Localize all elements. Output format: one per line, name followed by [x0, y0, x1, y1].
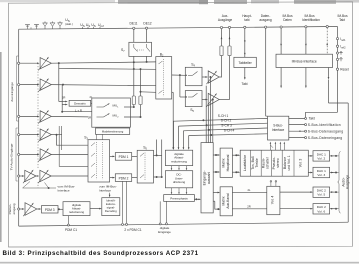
wire S-Bus Identifikation out: [289, 124, 305, 126]
svg-text:auswahl: auswahl: [207, 172, 211, 184]
wires 2x PDM C1: [122, 181, 124, 223]
pin S-Bus-Dateneingang: [305, 137, 307, 139]
pin IM-Bus Daten: [280, 26, 282, 28]
svg-text:2R: 2R: [88, 116, 91, 120]
wire Eingangsauswahl to Matrix Aux in1: [213, 192, 219, 194]
pin input 2: [18, 84, 20, 86]
wires digitale Eingaenge: [159, 201, 161, 223]
svg-text:Lautstärke: Lautstärke: [243, 155, 247, 171]
svg-text:S-Bus-Dateneingang: S-Bus-Dateneingang: [308, 136, 343, 140]
wire PDM3 to reducer2: [58, 208, 63, 210]
svg-text:Eingänge: Eingänge: [158, 230, 171, 234]
pin input 6: [18, 175, 20, 177]
wire input 1: [20, 62, 39, 64]
pin Iref2: [336, 45, 338, 47]
wire row3: [51, 115, 88, 118]
switch box S7: [129, 42, 152, 56]
wire S3 to PDM2: [110, 177, 114, 179]
svg-text:Reset: Reset: [340, 68, 348, 72]
svg-text:TV-Audio-Eingänge: TV-Audio-Eingänge: [10, 143, 14, 170]
svg-text:S-CH 3: S-CH 3: [221, 123, 232, 127]
resistor R3: [132, 96, 135, 105]
wire Dematrix out: [91, 102, 92, 104]
scan artifact: top grey band: [0, 0, 115, 2]
svg-text:Vol. 2: Vol. 2: [317, 156, 325, 160]
svg-text:Aux-Eingänge: Aux-Eingänge: [10, 82, 14, 102]
svg-text:Hauptkanal: Hauptkanal: [226, 154, 230, 171]
svg-text:Takt: Takt: [339, 18, 345, 22]
svg-text:US: US: [80, 23, 85, 28]
wire IM-Bus control 3 (clock, dashed continues): [328, 68, 330, 78]
op-amp A9: [25, 203, 37, 216]
svg-text:Interface: Interface: [272, 128, 285, 132]
op-amp A3: [40, 111, 51, 122]
wire S6 out 1: [154, 154, 162, 156]
pin platten input: [18, 208, 20, 210]
svg-text:2L: 2L: [248, 188, 251, 192]
svg-text:Ausgänge: Ausgänge: [346, 175, 350, 190]
dashed gain control line: [37, 63, 39, 169]
op-amp A6b: [40, 170, 51, 181]
block PDM 1: [115, 153, 131, 161]
ground pin: [27, 25, 29, 29]
svg-text:Modebestimmung: Modebestimmung: [102, 130, 124, 134]
svg-text:S-Bus-Identifikation: S-Bus-Identifikation: [308, 123, 341, 127]
svg-text:Taktteiler: Taktteiler: [238, 61, 252, 65]
wire S7 out left: [133, 56, 135, 96]
op-amp A5: [40, 149, 51, 160]
wire Vol4 out to DAC2a: [280, 191, 312, 193]
wire row2 branch down: [61, 85, 63, 112]
pin stub: [30, 27, 32, 29]
wire Eingangsauswahl to Matrix Hauptkanal in1: [213, 154, 219, 156]
svg-text:Vol. 3: Vol. 3: [299, 159, 303, 168]
wires MU down to S3: [96, 134, 98, 139]
block Modebestimmung: [96, 128, 130, 134]
wire amp to PDM3: [37, 208, 40, 210]
pin input 5: [18, 153, 20, 155]
wire reducer2 to decoder: [90, 208, 101, 210]
wire amp A7 to aux out 1: [219, 76, 221, 78]
op-amp A1: [40, 58, 51, 69]
bus S-CH 4: [188, 136, 190, 149]
block digitale Abtastreduzierung 2: [63, 202, 90, 216]
svg-text:schalter: schalter: [266, 156, 270, 169]
svg-text:Vol. 4: Vol. 4: [271, 196, 275, 205]
block DAC 1 Vol. 2: [313, 151, 330, 161]
wire DAC 2 Vol. 6 output: [330, 208, 336, 210]
svg-text:PDM 2: PDM 2: [119, 176, 129, 180]
pin Hauptakt: [244, 26, 246, 28]
wire to second stage: [37, 175, 40, 177]
wire Preemphasis to Eingangsauswahl: [194, 198, 199, 200]
svg-text:eingang: eingang: [12, 203, 16, 214]
switch box S6: [137, 150, 153, 183]
wire input 2: [20, 84, 39, 86]
wire IM-Bus Daten to interface: [280, 28, 282, 54]
wire input 5: [20, 154, 39, 156]
block Vol 4: [267, 186, 280, 214]
supply pin Uref: [99, 27, 101, 29]
wire S7 out right: [146, 56, 148, 62]
block B2: [156, 57, 172, 99]
pin ground 2: [336, 58, 338, 60]
wire aux drop to S3: [59, 126, 88, 166]
decoupling pin C3: [59, 26, 61, 29]
pin DE11: [133, 27, 135, 29]
wire DE12 to switch S7: [146, 29, 148, 42]
wire Taktteiler output Takt: [244, 68, 246, 80]
op-amp A4: [40, 129, 51, 140]
svg-text:(stab.): (stab.): [65, 22, 73, 26]
svg-text:2R: 2R: [247, 204, 250, 208]
wire row5 to S3: [51, 154, 88, 156]
bracket Aux inputs: [16, 56, 18, 121]
switch MU2: [97, 116, 104, 118]
svg-text:S-CH 4: S-CH 4: [224, 128, 235, 132]
block Identifikationssignal-Decoding: [102, 198, 120, 216]
block Taktteiler: [234, 57, 256, 67]
IC boundary bottom edge: [19, 222, 349, 226]
svg-text:S-CH 1: S-CH 1: [218, 114, 229, 118]
svg-text:Treble: Treble: [255, 158, 259, 168]
switch box S4: [185, 67, 202, 85]
scan artifact: bottom smear: [0, 262, 359, 264]
audio output bracket: [338, 151, 341, 213]
switch MU1: [97, 106, 104, 108]
block main processing row: [240, 150, 308, 176]
wire branch row1 to B2 second input: [59, 63, 156, 70]
wire DAC 2 Vol. 5 output: [330, 191, 336, 193]
wire Matrix Hauptkanal out2: [232, 171, 239, 173]
svg-text:takt: takt: [244, 18, 249, 22]
wire Matrix Aux out 2R: [232, 208, 266, 210]
block Eingangsauswahl: [201, 143, 213, 213]
arrows to Preemphasis: [171, 188, 173, 193]
wire row1 to B2: [51, 62, 155, 63]
supply pin Us: [82, 27, 84, 29]
svg-text:reduzierung: reduzierung: [171, 159, 187, 163]
op-amp A6a: [25, 170, 36, 181]
op-amp A7: [208, 71, 219, 83]
block DC-Unterdrueckung: [165, 171, 192, 188]
supply pin Us: [87, 27, 89, 29]
wire DAC 1 Vol. 2 output: [330, 155, 336, 157]
wire Eingangsauswahl to Matrix Aux in2: [215, 201, 219, 209]
IC boundary left edge: [18, 29, 20, 226]
wire row4 drop to S3: [57, 135, 89, 146]
pin IM-Bus Identifikation: [305, 26, 307, 28]
svg-text:drückung: drückung: [173, 180, 186, 184]
wire amp A8 to aux out 2: [219, 99, 229, 101]
svg-text:Bild 3: Prinzipschaltbild des: Bild 3: Prinzipschaltbild des Soundproze…: [3, 250, 199, 257]
block DAC 2 Vol. 5: [313, 187, 330, 197]
wire S3 to PDM1: [110, 155, 114, 157]
switch box S3: [88, 140, 110, 182]
wire Matrix Aux out 2L: [232, 191, 266, 193]
wire: right edge jog to S-Bus Takt pin: [306, 112, 338, 118]
pin input 1: [18, 62, 20, 64]
block IM-Bus-Interface U1: [276, 54, 333, 67]
wire IM-Bus Identifikation to interface: [305, 28, 307, 54]
wire S6 output rail 1: [156, 140, 158, 156]
wire IM-Bus control 2: [305, 68, 307, 87]
arrow zum IM-Bus-Interface into decoder: [109, 193, 111, 197]
op-amp A2: [40, 79, 51, 90]
bus S-CH 1: [173, 121, 175, 149]
wire S6 out 2: [154, 176, 162, 178]
block digitale Abtastreduzierung: [165, 150, 192, 165]
block DAC 2 Vol. 6: [313, 204, 330, 214]
pin S-Bus-Identifikation: [305, 124, 307, 126]
pin Reset: [336, 68, 338, 70]
wire row2 to B2: [51, 85, 155, 86]
svg-text:Ausgänge: Ausgänge: [218, 18, 233, 22]
svg-text:Uref: Uref: [98, 23, 104, 28]
block S-Bus-Interface U2: [268, 116, 289, 140]
svg-text:Interface: Interface: [99, 189, 111, 193]
pin Aux output 1: [220, 26, 222, 28]
wire Datenausgang down to S-Bus interface: [266, 28, 268, 116]
wire Aux output 1 with arrow and resistor R1: [221, 29, 223, 46]
svg-text:Interface: Interface: [58, 189, 70, 193]
pin IM-Bus Takt: [326, 25, 328, 27]
svg-text:Vol. 3: Vol. 3: [317, 173, 325, 177]
switch box S5: [185, 91, 202, 107]
svg-text:S-Bus-Datenausgang: S-Bus-Datenausgang: [308, 130, 343, 134]
svg-text:PDM 3: PDM 3: [45, 208, 55, 212]
pin S-Bus Takt: [305, 117, 307, 119]
svg-text:Aux-Kanal: Aux-Kanal: [226, 193, 230, 208]
gain control bus wire: [23, 187, 56, 189]
svg-text:DE11: DE11: [129, 22, 137, 26]
wire B2 lower output down to sample-rate reducer: [172, 91, 174, 93]
ground pin: [36, 25, 38, 29]
svg-text:S-CH 2: S-CH 2: [221, 119, 232, 123]
svg-text:US: US: [86, 23, 91, 28]
wire IM-Bus Takt to interface (dashed): [326, 28, 328, 55]
svg-text:Iref2: Iref2: [340, 45, 346, 50]
block Preemphasis: [164, 195, 195, 202]
svg-text:reduzierung: reduzierung: [69, 210, 85, 214]
wire DE11 to switch S7: [133, 29, 135, 42]
block Dematrix: [69, 100, 91, 106]
wire row6 to S3: [51, 175, 88, 177]
pin input 3: [18, 115, 20, 117]
pin Iref1: [336, 38, 338, 40]
arrows to DC block: [171, 166, 173, 170]
block PDM 3: [42, 206, 59, 213]
wire B2 branch down to S5: [179, 75, 181, 97]
svg-text:US: US: [65, 18, 70, 23]
wire S4 to amp: [202, 76, 207, 78]
svg-text:PDM C1: PDM C1: [65, 228, 77, 232]
pin input 4: [18, 134, 20, 136]
pin S-Bus-Datenausgang: [305, 130, 307, 132]
svg-text:Vol. 6: Vol. 6: [317, 209, 325, 213]
scan artifact: left edge smear: [0, 52, 2, 242]
wire input 3: [20, 115, 39, 117]
wire S-Bus Dateneingang in: [289, 137, 305, 139]
wire second arrow into Dematrix: [62, 104, 66, 106]
svg-text:PDM 1: PDM 1: [119, 155, 129, 159]
svg-text:IM-Bus-Interface: IM-Bus-Interface: [292, 60, 317, 64]
svg-text:stereo: stereo: [276, 158, 280, 168]
pins above Vol 4: [270, 182, 272, 186]
wire Aux output 2 with arrow and resistor R2: [229, 29, 231, 46]
wire into B2 in4: [141, 91, 156, 94]
block Matrix Hauptkanal: [220, 148, 232, 177]
bus S-CH 3: [182, 131, 184, 149]
block Matrix Aux-Kanal: [220, 187, 232, 216]
wire input 4: [20, 134, 39, 136]
svg-text:Dematrix: Dematrix: [74, 102, 86, 106]
wire into Dematrix: [58, 69, 60, 102]
wire input 6: [20, 175, 24, 177]
svg-text:2 x PDM C1: 2 x PDM C1: [124, 228, 141, 232]
svg-text:Identifikation: Identifikation: [302, 18, 320, 22]
bracket TV inputs: [15, 128, 17, 181]
block PDM 2: [115, 174, 131, 182]
wire IM-Bus control 1: [280, 68, 282, 87]
control lines S-Bus interface to processing row: [269, 143, 271, 150]
wire Eingangsauswahl to Matrix Hauptkanal in2: [213, 171, 219, 173]
svg-text:Daten: Daten: [283, 18, 292, 22]
wire MU2 out: [124, 116, 141, 118]
svg-text:DE12: DE12: [143, 22, 151, 26]
svg-text:Takt: Takt: [309, 117, 315, 121]
IC boundary top edge: [19, 27, 338, 30]
pin Datenausgang: [265, 26, 267, 28]
wire right rail down: [347, 103, 349, 222]
wire S-Bus Takt out: [289, 117, 305, 119]
svg-text:und Vol. 1: und Vol. 1: [287, 155, 291, 170]
wire S6 output rail 2: [161, 140, 163, 178]
wire row out to DAC1b: [308, 172, 312, 174]
wire Matrix Hauptkanal out1: [232, 154, 239, 156]
wire PDM1 to S6: [132, 155, 138, 157]
wire PDM2 to S6: [132, 177, 138, 179]
pin Aux output 2: [228, 26, 230, 28]
wire lower to MU block: [62, 111, 92, 113]
wire Vol4 out to DAC2b: [280, 208, 312, 210]
wire MU1 out: [124, 106, 134, 108]
wire DAC 1 Vol. 3 output: [330, 172, 336, 174]
bus S-CH 2: [178, 126, 180, 149]
resistor R4: [139, 96, 142, 105]
wire row out to DAC1a: [308, 155, 312, 157]
svg-text:Decoding: Decoding: [105, 209, 117, 213]
wire platten input: [20, 208, 24, 210]
op-amp A8: [208, 93, 219, 105]
wire Hauptakt to Taktteiler: [244, 28, 246, 57]
svg-text:Iref1: Iref1: [340, 37, 346, 42]
supply pin Us: [93, 27, 95, 29]
pin ground 1: [336, 52, 338, 54]
pin DE12: [146, 27, 148, 29]
block matrix switching MU: [92, 98, 131, 127]
wire PDM C1 pin: [67, 216, 69, 225]
wire B2 output to S4: [172, 74, 186, 76]
decoupling pin C2: [52, 26, 54, 29]
svg-text:Vol. 5: Vol. 5: [317, 193, 325, 197]
wire S5 to amp: [202, 99, 207, 101]
wire row4 branch: [51, 134, 62, 136]
wire S-Bus Datenausgang out: [289, 130, 305, 132]
diagonal from control bus to amp pair: [23, 182, 30, 189]
svg-text:2R: 2R: [62, 95, 65, 99]
svg-text:US: US: [91, 23, 96, 28]
svg-text:Preemphasis: Preemphasis: [170, 197, 188, 201]
decoupling pin C1: [44, 26, 46, 29]
wires down to Eingangsauswahl: [209, 77, 211, 143]
svg-text:ausgang: ausgang: [259, 18, 271, 22]
svg-text:Takt: Takt: [241, 82, 247, 86]
IC boundary right edge: [337, 27, 339, 113]
block DAC 1 Vol. 3: [313, 167, 330, 177]
wire clock routing to right rail: [329, 102, 349, 104]
